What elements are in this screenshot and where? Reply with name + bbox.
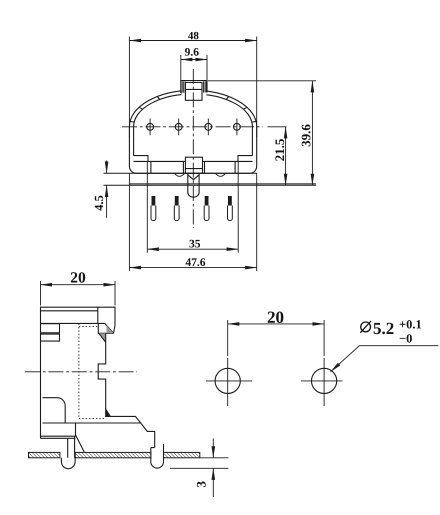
dim 47.6 extension lines: [129, 173, 256, 271]
side view: mounting plate hatched: [29, 452, 229, 468]
top view: horizontal centerline: [122, 126, 263, 128]
side view: plate bottom line extension: [200, 457, 229, 459]
side view: snap pin 1 hook diagonal: [76, 435, 85, 452]
text label 39.6: [302, 125, 311, 147]
top view: top key base hatching: [182, 81, 206, 93]
top view: inner wall outline: [134, 94, 253, 156]
side view: hidden dotted lines: [79, 324, 105, 419]
top view: wall tick marks left: [130, 91, 182, 122]
top view: bottom center tab: [185, 157, 202, 173]
top view: top key base (9.6 wide): [181, 81, 207, 94]
top view: holes: [147, 123, 154, 130]
top view: bottom tab divider: [185, 168, 202, 170]
top view: bottom pin chevron: [188, 175, 199, 180]
side view: horizontal centerline: [25, 371, 137, 373]
side view: right profile lower: [110, 416, 154, 447]
top view: hole vertical center ticks: [150, 119, 237, 136]
top view: vertical centerline: [192, 69, 194, 228]
top view: top key mask: [181, 81, 206, 100]
dim 47.6 line: [129, 267, 256, 269]
hole view: left circle: [215, 368, 240, 393]
top view: smile contact right: [216, 173, 226, 176]
text label 5.2: [374, 323, 394, 335]
dim 9.6 line: [181, 59, 207, 61]
side view: upper latch tooth: [98, 323, 115, 333]
top view: outer body outline: [129, 90, 256, 173]
label leader line: [331, 346, 439, 372]
text label 9.6: [185, 48, 199, 56]
top view: 4 contact pins below body: [151, 196, 232, 221]
side view: top cap: [41, 307, 116, 325]
dim 20 line: [41, 284, 116, 286]
text label 48: [188, 32, 198, 39]
side view: left small tabs: [41, 324, 60, 341]
dim 48 extension lines: [129, 37, 256, 138]
hole view: right circle: [312, 368, 337, 393]
top view: interior bottom step right: [203, 156, 253, 174]
side view: second tooth: [99, 333, 105, 342]
top view: top key tab divider: [185, 88, 202, 90]
dimension texts as outlines: [71, 32, 421, 487]
side view: interior corner lower-left: [43, 398, 66, 423]
text label 20: [268, 312, 284, 324]
text label 35: [190, 240, 201, 248]
text label 3: [197, 482, 206, 488]
side view: pin bottom reference line: [170, 467, 228, 469]
top view dimensions: [107, 37, 316, 272]
side view: snap pin 2 bulb: [151, 462, 164, 468]
dim 3 lines: [212, 439, 214, 458]
dim 9.6 extension lines: [181, 55, 207, 81]
dim 20 extension lines: [228, 320, 324, 356]
dim 48 line: [129, 40, 256, 42]
top view: wall tick marks right: [204, 91, 256, 122]
dim 35 extension lines: [147, 161, 238, 252]
side view: cap inner top line: [41, 310, 98, 312]
side view: left edge: [40, 323, 42, 438]
text label 47.6: [186, 258, 206, 266]
top view: flange line upper: [129, 183, 316, 185]
dim 21.5 line: [285, 127, 287, 186]
top view: bottom face line: [104, 172, 257, 174]
top view: interior bottom step left: [134, 156, 186, 174]
side view: snap pin 1 shaft: [68, 436, 75, 458]
side view: right profile mid: [98, 333, 106, 409]
dim 4.5 lines: [106, 161, 108, 174]
dim 39.6 line: [311, 81, 313, 186]
text label −0: [400, 334, 412, 342]
text label 4.5: [95, 196, 103, 211]
hole view: center crosses: [206, 358, 252, 406]
side view: cap bottom line: [41, 322, 105, 324]
side view: upper tooth shade: [107, 325, 114, 333]
text label +0.1: [400, 320, 421, 329]
side view: snap pin 2 walls: [151, 444, 164, 462]
top view: bottom center pin: [188, 173, 199, 197]
dim 20 extension lines: [41, 281, 116, 306]
top view: top key tab: [185, 82, 202, 100]
diameter label symbol: [360, 321, 371, 333]
side view: latch tooth lower: [106, 409, 111, 416]
top view: centerline extension right: [268, 126, 287, 128]
dim 20 line: [228, 323, 324, 325]
side view: cap divider: [97, 307, 99, 323]
side view: bottom face: [43, 422, 141, 424]
side view dimensions: [41, 281, 214, 497]
text label 20: [71, 272, 85, 283]
top view: smile contact left: [175, 173, 185, 176]
top view: bottom tab side wing edges: [183, 161, 204, 173]
text label 21.5: [275, 139, 284, 161]
side view: foot block: [41, 423, 76, 438]
dim 35 line: [147, 248, 238, 250]
dim 39.6 extension line top: [208, 80, 316, 82]
top view: flange line lower: [104, 184, 317, 186]
side view: snap pin 1 bulb: [61, 458, 75, 469]
